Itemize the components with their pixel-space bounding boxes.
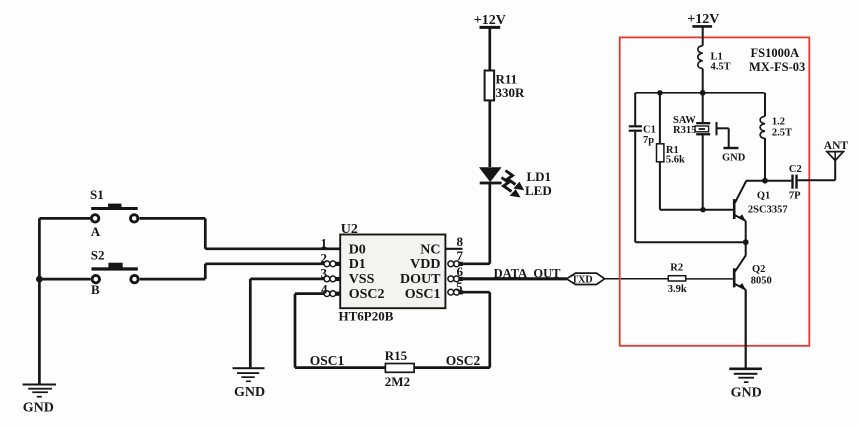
svg-text:LED: LED (525, 183, 552, 198)
svg-text:OSC1: OSC1 (405, 287, 441, 302)
svg-text:DATA_OUT: DATA_OUT (494, 266, 562, 280)
svg-text:MX-FS-03: MX-FS-03 (749, 60, 805, 74)
svg-text:Q1: Q1 (757, 191, 770, 202)
svg-text:VSS: VSS (349, 272, 375, 287)
svg-text:R15: R15 (385, 348, 408, 363)
svg-text:4: 4 (321, 281, 328, 296)
svg-text:S2: S2 (91, 248, 105, 263)
svg-text:OSC1: OSC1 (310, 353, 345, 368)
svg-text:Q2: Q2 (752, 264, 765, 275)
svg-text:1.2: 1.2 (772, 116, 785, 127)
svg-text:7P: 7P (789, 191, 801, 202)
svg-text:OSC2: OSC2 (349, 287, 385, 302)
svg-text:R2: R2 (670, 262, 683, 273)
svg-text:U2: U2 (341, 222, 358, 237)
svg-text:LD1: LD1 (527, 169, 552, 184)
svg-text:TXD: TXD (572, 275, 593, 286)
svg-text:7: 7 (457, 248, 464, 263)
svg-text:C1: C1 (643, 125, 656, 136)
svg-text:R315: R315 (673, 125, 696, 136)
svg-text:A: A (91, 224, 101, 239)
svg-text:GND: GND (23, 400, 54, 415)
svg-text:7p: 7p (643, 135, 654, 146)
svg-text:S1: S1 (90, 187, 104, 202)
svg-text:3: 3 (321, 266, 328, 281)
svg-text:8050: 8050 (751, 275, 772, 286)
svg-text:1: 1 (321, 235, 328, 250)
svg-text:DOUT: DOUT (400, 272, 441, 287)
svg-text:2SC3357: 2SC3357 (748, 205, 788, 216)
svg-text:ANT: ANT (824, 140, 849, 152)
svg-text:2: 2 (321, 251, 328, 266)
svg-text:8: 8 (457, 234, 464, 249)
svg-text:330R: 330R (496, 85, 526, 100)
svg-text:C2: C2 (789, 164, 802, 175)
svg-text:6: 6 (457, 264, 464, 279)
svg-text:D0: D0 (349, 242, 366, 257)
svg-text:OSC2: OSC2 (446, 353, 481, 368)
svg-text:GND: GND (234, 385, 265, 400)
svg-text:VDD: VDD (410, 257, 440, 272)
svg-text:HT6P20B: HT6P20B (339, 309, 394, 324)
svg-text:GND: GND (722, 152, 746, 163)
svg-text:5.6k: 5.6k (666, 155, 685, 166)
svg-text:NC: NC (420, 242, 440, 257)
svg-text:GND: GND (731, 385, 762, 400)
svg-text:+12V: +12V (687, 12, 719, 27)
svg-text:2M2: 2M2 (385, 374, 410, 389)
svg-text:3.9k: 3.9k (668, 284, 687, 295)
svg-text:B: B (91, 282, 100, 297)
svg-text:2.5T: 2.5T (772, 128, 792, 139)
svg-text:FS1000A: FS1000A (751, 46, 800, 60)
svg-text:4.5T: 4.5T (711, 61, 731, 72)
svg-text:5: 5 (456, 279, 463, 294)
svg-text:D1: D1 (349, 257, 366, 272)
svg-text:+12V: +12V (474, 13, 506, 28)
